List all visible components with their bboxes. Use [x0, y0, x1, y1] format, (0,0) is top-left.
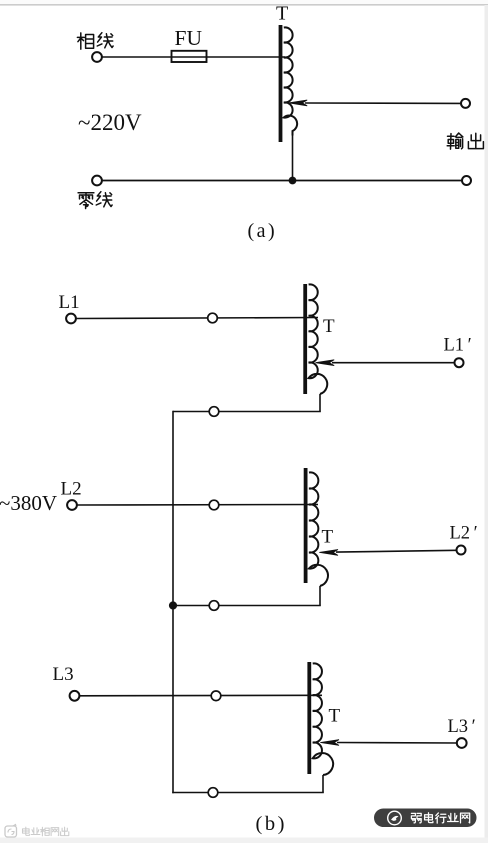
transformer T2 core bar	[304, 468, 308, 583]
right edge strip	[485, 5, 488, 843]
label 输出 (output)	[447, 133, 483, 149]
wire T2 bottom lead	[319, 586, 321, 606]
transformer T3 winding	[313, 663, 333, 775]
wire neutral	[102, 180, 462, 182]
wire zigzag3 horizontal	[172, 792, 324, 794]
wire interphase vertical	[172, 411, 174, 794]
terminal L3	[70, 691, 80, 701]
connection circle zigzag3	[208, 788, 218, 798]
connection circle L1 line	[208, 313, 218, 323]
wire zigzag2 horizontal	[173, 605, 321, 607]
wire L2 to T2	[77, 504, 318, 507]
bottom edge strip	[0, 838, 488, 843]
transformer T1 core bar	[303, 284, 307, 394]
terminal L2'	[457, 546, 466, 555]
svg-text:L3: L3	[53, 664, 74, 685]
connection circle zigzag2	[209, 601, 219, 611]
wire fuse to transformer	[207, 56, 286, 58]
tap arrow L2'	[319, 550, 456, 556]
wire L1 to T1	[76, 318, 318, 319]
wire winding bottom to neutral	[292, 135, 294, 181]
wire T1 bottom lead	[319, 394, 321, 412]
terminal L1	[66, 314, 76, 324]
svg-text:T: T	[322, 527, 334, 548]
transformer T3 core bar	[307, 662, 311, 774]
svg-text:T: T	[276, 3, 288, 25]
junction node interphase	[169, 601, 177, 609]
terminal output hot	[461, 99, 470, 108]
svg-text:L1: L1	[59, 292, 80, 313]
wire L3 to T3	[79, 694, 322, 697]
svg-text:L1′: L1′	[444, 336, 472, 356]
wire phase to fuse	[102, 56, 172, 58]
svg-text:FU: FU	[175, 26, 203, 50]
connection circle L2 line	[209, 500, 219, 510]
transformer T1 winding	[309, 284, 328, 394]
transformer T winding	[284, 27, 297, 135]
junction node neutral-tap	[289, 177, 297, 185]
terminal L1'	[455, 358, 464, 367]
label 相线 (phase wire)	[77, 33, 113, 49]
label 零线 (neutral wire)	[78, 192, 112, 209]
tap arrow (a)	[289, 100, 462, 106]
logo band 弱电行业网	[374, 809, 477, 828]
wire zigzag1 horizontal	[173, 411, 321, 413]
svg-text:~380V: ~380V	[0, 491, 57, 515]
tap arrow L1'	[316, 360, 455, 366]
terminal neutral right	[462, 176, 471, 185]
svg-text:T: T	[329, 706, 341, 727]
terminal L2	[67, 500, 77, 510]
svg-text:L2: L2	[61, 479, 82, 500]
fuse FU	[172, 51, 207, 62]
top border line	[0, 0, 488, 6]
terminal phase-in	[92, 52, 102, 62]
svg-text:L3′: L3′	[448, 717, 476, 737]
transformer T core bar	[279, 25, 283, 142]
svg-text:T: T	[323, 316, 335, 337]
wire T3 bottom lead	[322, 775, 324, 793]
terminal neutral left	[92, 176, 102, 186]
transformer T2 winding	[309, 472, 328, 586]
connection circle L3 line	[211, 691, 221, 701]
watermark bottom-left	[5, 825, 69, 838]
terminal L3'	[457, 738, 467, 748]
svg-text:(a): (a)	[248, 220, 278, 242]
svg-text:~220V: ~220V	[78, 110, 142, 135]
tap arrow L3'	[320, 740, 457, 746]
connection circle zigzag1	[209, 407, 219, 417]
svg-text:(b): (b)	[256, 813, 287, 835]
svg-text:L2′: L2′	[450, 524, 478, 544]
